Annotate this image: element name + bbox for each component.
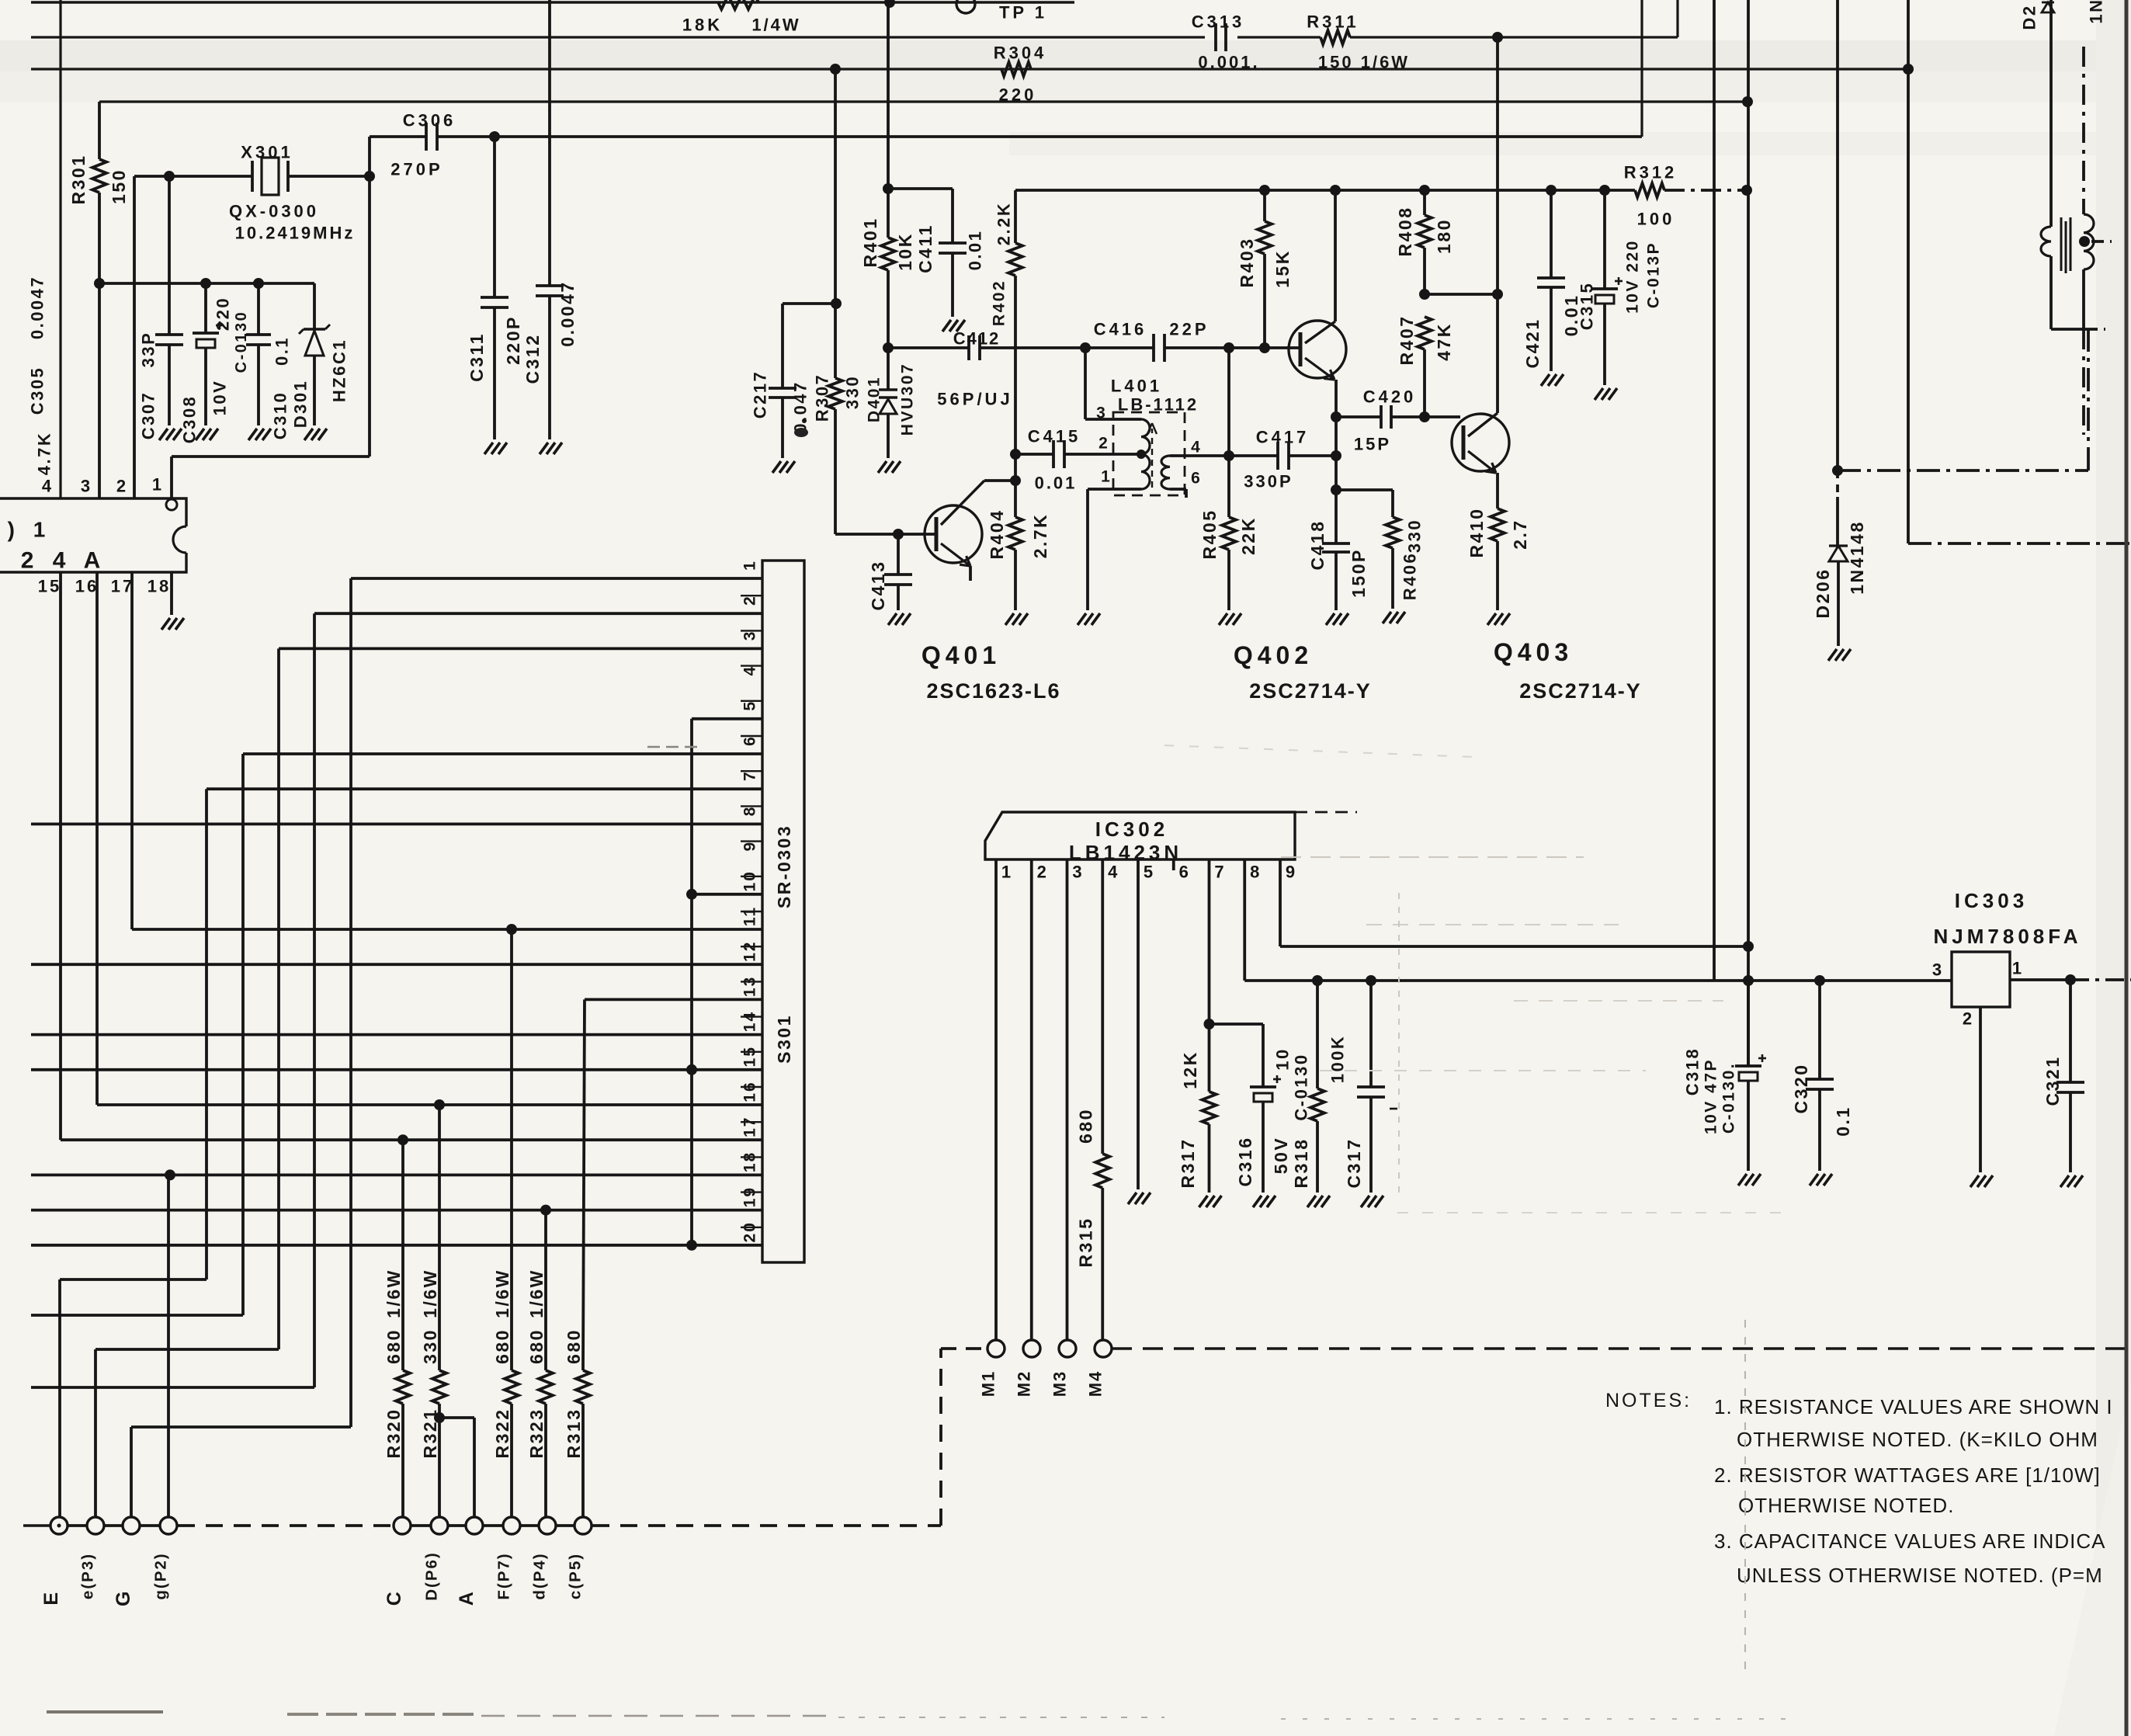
wire rail-3 bus: [31, 68, 1908, 70]
capacitor C415 0.01: [1015, 453, 1053, 456]
node Q402 emitter / C417: [1331, 450, 1341, 461]
svg-text:C305: C305: [28, 366, 47, 415]
terminal M4: [1095, 1340, 1112, 1357]
svg-text:3: 3: [81, 477, 93, 496]
wire bus x2208: [1713, 0, 1716, 981]
svg-text:220P: 220P: [503, 315, 523, 365]
pin divider 3: [741, 665, 762, 666]
svg-text:10V 47P: 10V 47P: [1702, 1058, 1720, 1134]
wire S301 pin19 long bus: [31, 1209, 762, 1212]
svg-text:2: 2: [1963, 1009, 1975, 1029]
dashed riser to M terminals: [939, 1349, 942, 1526]
svg-text:R318: R318: [1291, 1138, 1311, 1189]
node rail-4 right end: [1742, 96, 1753, 107]
ground C310: [248, 429, 257, 440]
pin divider 6: [741, 770, 762, 772]
svg-text:IC303: IC303: [1955, 889, 2028, 912]
wire IC302 pin1 to M1: [994, 859, 998, 1340]
pin divider 11: [741, 946, 762, 947]
svg-text:LB-1112: LB-1112: [1118, 395, 1199, 415]
transistor Q401 2SC1623-L6: [925, 505, 982, 563]
wire L401 pin6 stub: [1170, 488, 1186, 491]
svg-text:330P: 330P: [1244, 472, 1293, 491]
node C308 tap: [200, 278, 211, 289]
node C417 left / R405: [1223, 450, 1234, 461]
capacitor C418 150P: [1322, 542, 1350, 545]
svg-text:R401: R401: [860, 217, 880, 268]
svg-text:16: 16: [75, 577, 99, 596]
ground R410: [1487, 613, 1496, 625]
resistor R318 100K: [1316, 981, 1319, 1088]
svg-text:7: 7: [741, 770, 759, 781]
transformer secondary winding: [2084, 214, 2094, 269]
svg-text:11: 11: [741, 906, 759, 926]
wire IC303 pin2 to ground: [1979, 1007, 1982, 1172]
terminal C: [394, 1517, 411, 1534]
svg-text:C-0130: C-0130: [1292, 1053, 1311, 1120]
node C416 / R403: [1259, 342, 1270, 353]
svg-text:F(P7): F(P7): [495, 1552, 513, 1599]
svg-text:C-013P: C-013P: [1645, 241, 1663, 308]
capacitor C310 0.1: [257, 283, 260, 335]
svg-text:R405: R405: [1199, 509, 1220, 560]
ground C308: [196, 429, 204, 440]
wire divider to Q403 collector: [1425, 293, 1498, 296]
svg-text:C308: C308: [180, 395, 200, 444]
node C416 / R405: [1223, 342, 1234, 353]
node crystal-right: [364, 171, 375, 182]
svg-text:SR-0303: SR-0303: [774, 825, 794, 908]
node R401 / C411 tap: [883, 183, 894, 194]
wire crystal net: [134, 175, 252, 178]
ground D301: [304, 429, 313, 440]
svg-text:2.2K: 2.2K: [994, 202, 1014, 245]
svg-text:330: 330: [420, 1328, 440, 1364]
svg-text:1: 1: [1001, 863, 1014, 882]
svg-text:330: 330: [1405, 519, 1425, 553]
terminal g(P2): [160, 1517, 177, 1534]
wire bus x2252: [1747, 0, 1750, 1067]
capacitor C312 0.0047: [548, 0, 551, 286]
svg-text:R320: R320: [384, 1408, 404, 1459]
node R402 / Q401 collector: [1010, 475, 1021, 486]
svg-text:Q402: Q402: [1234, 641, 1313, 669]
resistor R317 12K: [1203, 1092, 1216, 1124]
svg-text:9: 9: [1286, 863, 1298, 882]
capacitor C421 0.01: [1550, 190, 1553, 278]
svg-text:0.0047: 0.0047: [557, 280, 578, 346]
svg-text:4: 4: [1191, 439, 1203, 457]
capacitor C217 0.047: [781, 304, 784, 388]
wire terminal e riser and jog: [94, 1349, 97, 1518]
dashed terminal line: [23, 1524, 50, 1526]
svg-text:C418: C418: [1307, 520, 1328, 571]
svg-text:47K: 47K: [1434, 322, 1454, 361]
svg-text:R406: R406: [1400, 552, 1420, 601]
ground R404: [1005, 613, 1014, 625]
wire bypass bank bus: [99, 282, 314, 285]
svg-text:0.1: 0.1: [272, 336, 292, 366]
wire IC301 pin16 riser: [95, 572, 99, 1105]
svg-text:R313: R313: [564, 1408, 584, 1459]
svg-text:2: 2: [1098, 435, 1111, 453]
svg-text:QX-0300: QX-0300: [229, 202, 319, 221]
ground C317: [1361, 1196, 1369, 1207]
wire riser x405: [313, 613, 316, 1387]
pin divider 4: [741, 700, 762, 702]
capacitor C413: [897, 534, 900, 575]
wire IC302 pin9 bus: [1279, 859, 1282, 946]
terminal c(P5): [574, 1517, 592, 1534]
svg-text:10K: 10K: [895, 232, 915, 271]
svg-text:100K: 100K: [1328, 1035, 1348, 1084]
node rail245 C421: [1546, 185, 1557, 196]
svg-text:15: 15: [38, 577, 61, 596]
svg-text:R323: R323: [526, 1408, 547, 1459]
resistor R311 150 1/6W on rail-2: [1321, 30, 1350, 44]
svg-text:C321: C321: [2042, 1056, 2063, 1106]
node R401 / C412 wire: [883, 342, 894, 353]
resistor R405 22K: [1227, 348, 1230, 517]
resistor R304 220 on rail-3: [1001, 62, 1031, 76]
wire rail-245 supply: [1015, 189, 1605, 192]
svg-text:C415: C415: [1028, 427, 1081, 446]
svg-text:1: 1: [1101, 468, 1113, 486]
node R301 / bypass bank: [94, 278, 105, 289]
diode D2xx at page top: [2042, 2, 2054, 12]
node emitter / C418 R406: [1331, 484, 1341, 495]
svg-text:C-0130: C-0130: [233, 311, 250, 373]
svg-text:5: 5: [741, 700, 759, 711]
svg-text:1N: 1N: [2087, 0, 2106, 24]
svg-text:220: 220: [213, 297, 233, 331]
node rail-2 / Q403 collector: [1492, 32, 1503, 43]
ground C413: [888, 613, 897, 625]
svg-text:680: 680: [526, 1328, 547, 1364]
svg-text:R404: R404: [987, 509, 1007, 560]
fold artifact bottom: [47, 1710, 163, 1713]
ground C307: [159, 429, 168, 440]
ground IC303 pin2: [1970, 1175, 1979, 1187]
svg-text:18: 18: [148, 577, 171, 596]
dash-dot net lower right: [1908, 542, 2131, 545]
capacitor C416 22P: [1152, 334, 1155, 362]
ground C312: [540, 443, 548, 454]
zener diode D301 HZ6C1: [313, 283, 316, 329]
terminal G: [123, 1517, 140, 1534]
svg-text:2SC2714-Y: 2SC2714-Y: [1249, 679, 1372, 703]
ground C411: [942, 320, 951, 332]
wire S301 pin12 long bus: [31, 963, 762, 966]
svg-text:C420: C420: [1363, 387, 1417, 407]
resistor R407 47K: [1418, 317, 1432, 349]
ground R406: [1383, 612, 1391, 623]
svg-text:100: 100: [1637, 210, 1675, 229]
svg-text:R317: R317: [1178, 1138, 1198, 1189]
wire margin jog to x405: [31, 1386, 314, 1389]
inductor L401 LB-1112 dashed body: [1113, 412, 1185, 495]
svg-text:22K: 22K: [1238, 516, 1258, 555]
svg-text:R407: R407: [1397, 315, 1417, 366]
svg-text:C: C: [384, 1590, 405, 1606]
resistor R301 150: [98, 102, 101, 159]
svg-text:UNLESS OTHERWISE NOTED. (P=M: UNLESS OTHERWISE NOTED. (P=M: [1737, 1564, 2103, 1587]
IC IC301 (partial, ...24A): [0, 498, 186, 572]
dashed core arrow: [1151, 429, 1153, 488]
svg-text:Q401: Q401: [921, 641, 1001, 669]
svg-text:NJM7808FA: NJM7808FA: [1934, 925, 2082, 948]
resistor R321 330: [438, 1105, 441, 1370]
wire S301 pin15 long bus: [31, 1068, 762, 1071]
svg-text:S301: S301: [774, 1014, 794, 1064]
svg-text:3: 3: [741, 630, 759, 641]
ground C316: [1253, 1196, 1262, 1207]
node pin11 / R322: [506, 924, 517, 935]
resistor R315 680: [1095, 1154, 1109, 1188]
svg-text:C313: C313: [1192, 12, 1245, 32]
wire S301 pin1 from G staircase: [351, 577, 762, 580]
svg-text:C315: C315: [1577, 282, 1597, 331]
pin divider 18: [741, 1191, 762, 1193]
wire emitter column: [1334, 417, 1338, 543]
node L401 primary tap pin2: [1137, 450, 1146, 459]
resistor R404 2.7K: [1014, 481, 1017, 517]
svg-text:7: 7: [1214, 863, 1227, 882]
wire terminal E riser and jog: [58, 1279, 61, 1518]
svg-text:IC302: IC302: [1095, 818, 1168, 841]
transistor Q403 2SC2714-Y: [1452, 414, 1509, 471]
capacitor C417 330P: [1229, 454, 1278, 457]
svg-text:56P/UJ: 56P/UJ: [937, 390, 1012, 409]
svg-text:R322: R322: [492, 1408, 512, 1459]
svg-text:2 4 A: 2 4 A: [21, 548, 107, 574]
node rail245 right end: [1741, 185, 1752, 196]
svg-text:4: 4: [741, 665, 759, 676]
ground C318: [1738, 1174, 1747, 1186]
IC IC303 NJM7808FA regulator: [1952, 952, 2010, 1007]
wire R406 jog: [1336, 488, 1393, 491]
node C310 tap: [253, 278, 264, 289]
svg-text:0.047: 0.047: [791, 380, 810, 433]
svg-text:680: 680: [492, 1328, 512, 1364]
pin divider 8: [741, 840, 762, 842]
node pin8 / C317: [1366, 975, 1376, 986]
svg-text:D301: D301: [291, 380, 311, 429]
svg-text:1/6W: 1/6W: [492, 1269, 512, 1318]
svg-text:150: 150: [109, 168, 129, 204]
terminal E: [50, 1517, 68, 1534]
svg-text:G: G: [113, 1589, 134, 1606]
svg-text:15: 15: [741, 1046, 759, 1067]
wire L401 pin3 feed: [1084, 348, 1087, 419]
faint fold vertical: [1398, 893, 1400, 1196]
svg-text:6: 6: [1179, 863, 1192, 882]
capacitor C311 220P: [493, 137, 496, 297]
svg-text:680: 680: [384, 1328, 404, 1364]
wire terminal G riser and jog: [130, 1427, 133, 1518]
svg-text:50V: 50V: [1271, 1137, 1291, 1174]
wire IC302 pin5 to ground: [1137, 859, 1140, 1189]
wire IC301 pin17 riser: [130, 572, 134, 929]
resistor R401 10K: [881, 238, 895, 270]
svg-text:4: 4: [1108, 863, 1120, 882]
svg-text:4: 4: [42, 477, 54, 496]
svg-text:R304: R304: [994, 43, 1047, 63]
capacitor C315 220 10V electrolytic: [1603, 190, 1606, 289]
node pin1 / C321: [2065, 974, 2076, 985]
svg-text:C-0130.: C-0130.: [1720, 1062, 1738, 1134]
svg-text:0.1: 0.1: [1833, 1106, 1853, 1136]
wire IC302 pin7 / R317: [1208, 859, 1211, 1092]
svg-text:A: A: [456, 1590, 477, 1606]
svg-text:2.7: 2.7: [1510, 519, 1530, 549]
node pin20 / x890 bus: [686, 1240, 697, 1251]
wire riser x313: [241, 754, 245, 1315]
resistor R402 2.2K from rail: [1014, 190, 1017, 243]
transformer T201 primary lead: [2049, 0, 2053, 227]
dashed lead down: [2082, 329, 2085, 435]
svg-text:9: 9: [741, 841, 759, 852]
node C416 / L401 pin3 feed: [1080, 342, 1091, 353]
node divider / collector column: [1492, 289, 1503, 300]
svg-text:8: 8: [741, 806, 759, 817]
node D206 / dash net: [1832, 465, 1843, 476]
svg-text:C421: C421: [1522, 318, 1543, 369]
wire rail-4 bus: [99, 100, 1747, 102]
node base / C413: [893, 529, 904, 540]
wire IC302 pin6 stub: [1172, 859, 1175, 870]
svg-text:14: 14: [741, 1011, 759, 1032]
resistor R403 15K: [1263, 190, 1266, 221]
wire pin1 return: crystal right to IC301 pin1: [368, 137, 371, 457]
wire S301 pin6 from margin staircase: [243, 752, 762, 755]
svg-text:R402: R402: [991, 279, 1008, 326]
pin divider 17: [741, 1156, 762, 1158]
terminal M3: [1059, 1340, 1076, 1357]
ground L401 pin1: [1078, 613, 1086, 625]
node secondary tap: [2079, 236, 2090, 247]
node pin18 / g riser: [165, 1169, 175, 1180]
varactor diode D401 HVU307: [887, 348, 890, 390]
pin divider 14: [741, 1051, 762, 1053]
svg-text:10: 10: [741, 870, 759, 891]
capacitor C411 0.01: [951, 189, 954, 243]
svg-text:3: 3: [1072, 863, 1085, 882]
svg-text:3. CAPACITANCE VALUES ARE INDI: 3. CAPACITANCE VALUES ARE INDICA: [1714, 1529, 2105, 1553]
transformer core: [2060, 217, 2063, 271]
svg-text:15K: 15K: [1272, 249, 1293, 288]
wire terminal A jog to R321 bottom: [473, 1418, 476, 1518]
svg-text:19: 19: [741, 1186, 759, 1207]
svg-text:C412: C412: [953, 329, 1001, 349]
resistor R313 680: [583, 999, 585, 1370]
terminal M1: [987, 1340, 1005, 1357]
wire S301 pin20 long bus: [31, 1244, 762, 1247]
L401 primary winding: [1141, 419, 1150, 489]
wire rail-2 bus: [31, 36, 1205, 38]
capacitor C306 270P: [425, 123, 428, 151]
wire C217 jog: [783, 302, 836, 305]
svg-text:L401: L401: [1111, 377, 1162, 396]
svg-text:270P: 270P: [390, 160, 443, 179]
svg-text:C316: C316: [1235, 1137, 1255, 1187]
terminal e(P3): [87, 1517, 104, 1534]
ink blob artifact: [794, 428, 808, 437]
svg-text:10V 220: 10V 220: [1624, 239, 1642, 314]
fold artifact vertical: [1744, 1320, 1746, 1677]
wire S301 pin13 from R313: [585, 998, 762, 1002]
node pin8 / R318: [1312, 975, 1323, 986]
svg-text:6: 6: [1191, 470, 1203, 488]
wire C316 jog: [1210, 1023, 1264, 1026]
node rail245 R408: [1419, 185, 1430, 196]
terminal F(P7): [503, 1517, 520, 1534]
pin1 inversion circle: [166, 499, 177, 510]
svg-text:R410: R410: [1466, 508, 1487, 558]
node pin16 / R321: [434, 1099, 445, 1110]
svg-text:2.7K: 2.7K: [1030, 513, 1050, 559]
resistor R410 2.7: [1496, 473, 1499, 509]
wire IC302 pin8 output: [1243, 859, 1246, 981]
svg-text:C311: C311: [467, 332, 487, 382]
svg-text:8: 8: [1250, 863, 1262, 882]
node A / R321: [434, 1412, 445, 1423]
wire C412/C416 coupling net: [888, 346, 969, 349]
svg-text:17: 17: [741, 1116, 759, 1137]
svg-text:X301: X301: [241, 143, 293, 162]
svg-text:C307: C307: [139, 391, 158, 440]
svg-text:M3: M3: [1050, 1370, 1070, 1397]
wire R401 column from rail-1: [887, 2, 890, 238]
svg-text:1/6W: 1/6W: [420, 1269, 440, 1318]
svg-text:d(P4): d(P4): [531, 1552, 549, 1599]
pin divider 10: [741, 911, 762, 912]
svg-text:C317: C317: [1344, 1138, 1364, 1189]
pin divider 13: [741, 1016, 762, 1017]
wire bus x2458: [1907, 0, 1910, 543]
wire IC301 pin18 to ground: [170, 572, 173, 615]
dash-dot net from D206: [1838, 469, 2088, 472]
node C420 / R407: [1419, 411, 1430, 422]
node crystal / C307: [164, 171, 175, 182]
capacitor C308 220 10V electrolytic: [204, 283, 207, 333]
svg-text:15P: 15P: [1354, 435, 1391, 454]
svg-text:150P: 150P: [1348, 548, 1369, 598]
wire S301 pin2 from margin staircase: [314, 612, 762, 615]
svg-text:2SC1623-L6: 2SC1623-L6: [926, 679, 1060, 703]
svg-text:1/6W: 1/6W: [384, 1269, 404, 1318]
resistor R322 680: [510, 929, 513, 1370]
svg-text:18: 18: [741, 1151, 759, 1172]
wire IC301 pin15 riser: [59, 572, 62, 1140]
capacitor C412 56P/UJ: [967, 335, 970, 360]
svg-text:g(P2): g(P2): [152, 1552, 170, 1599]
pin divider 15: [741, 1086, 762, 1088]
node rail-3 / R307: [830, 64, 841, 75]
svg-text:R307: R307: [813, 373, 832, 422]
svg-text:0.01: 0.01: [1035, 474, 1078, 493]
svg-text:HZ6C1: HZ6C1: [330, 339, 349, 402]
node Q402 emitter / C420: [1331, 411, 1341, 422]
svg-text:1N4148: 1N4148: [1847, 520, 1867, 595]
svg-text:LB1423N: LB1423N: [1069, 841, 1182, 864]
svg-text:3: 3: [1932, 960, 1945, 980]
resistor R312 100: [1635, 183, 1664, 197]
wire transformer bottom: [2049, 256, 2053, 329]
wire S301 pin17 from IC301 pin15: [61, 1138, 762, 1141]
connector S301 SR-0303 body: [762, 561, 804, 1262]
capacitor C316 10 50V electrolytic: [1262, 1024, 1265, 1087]
